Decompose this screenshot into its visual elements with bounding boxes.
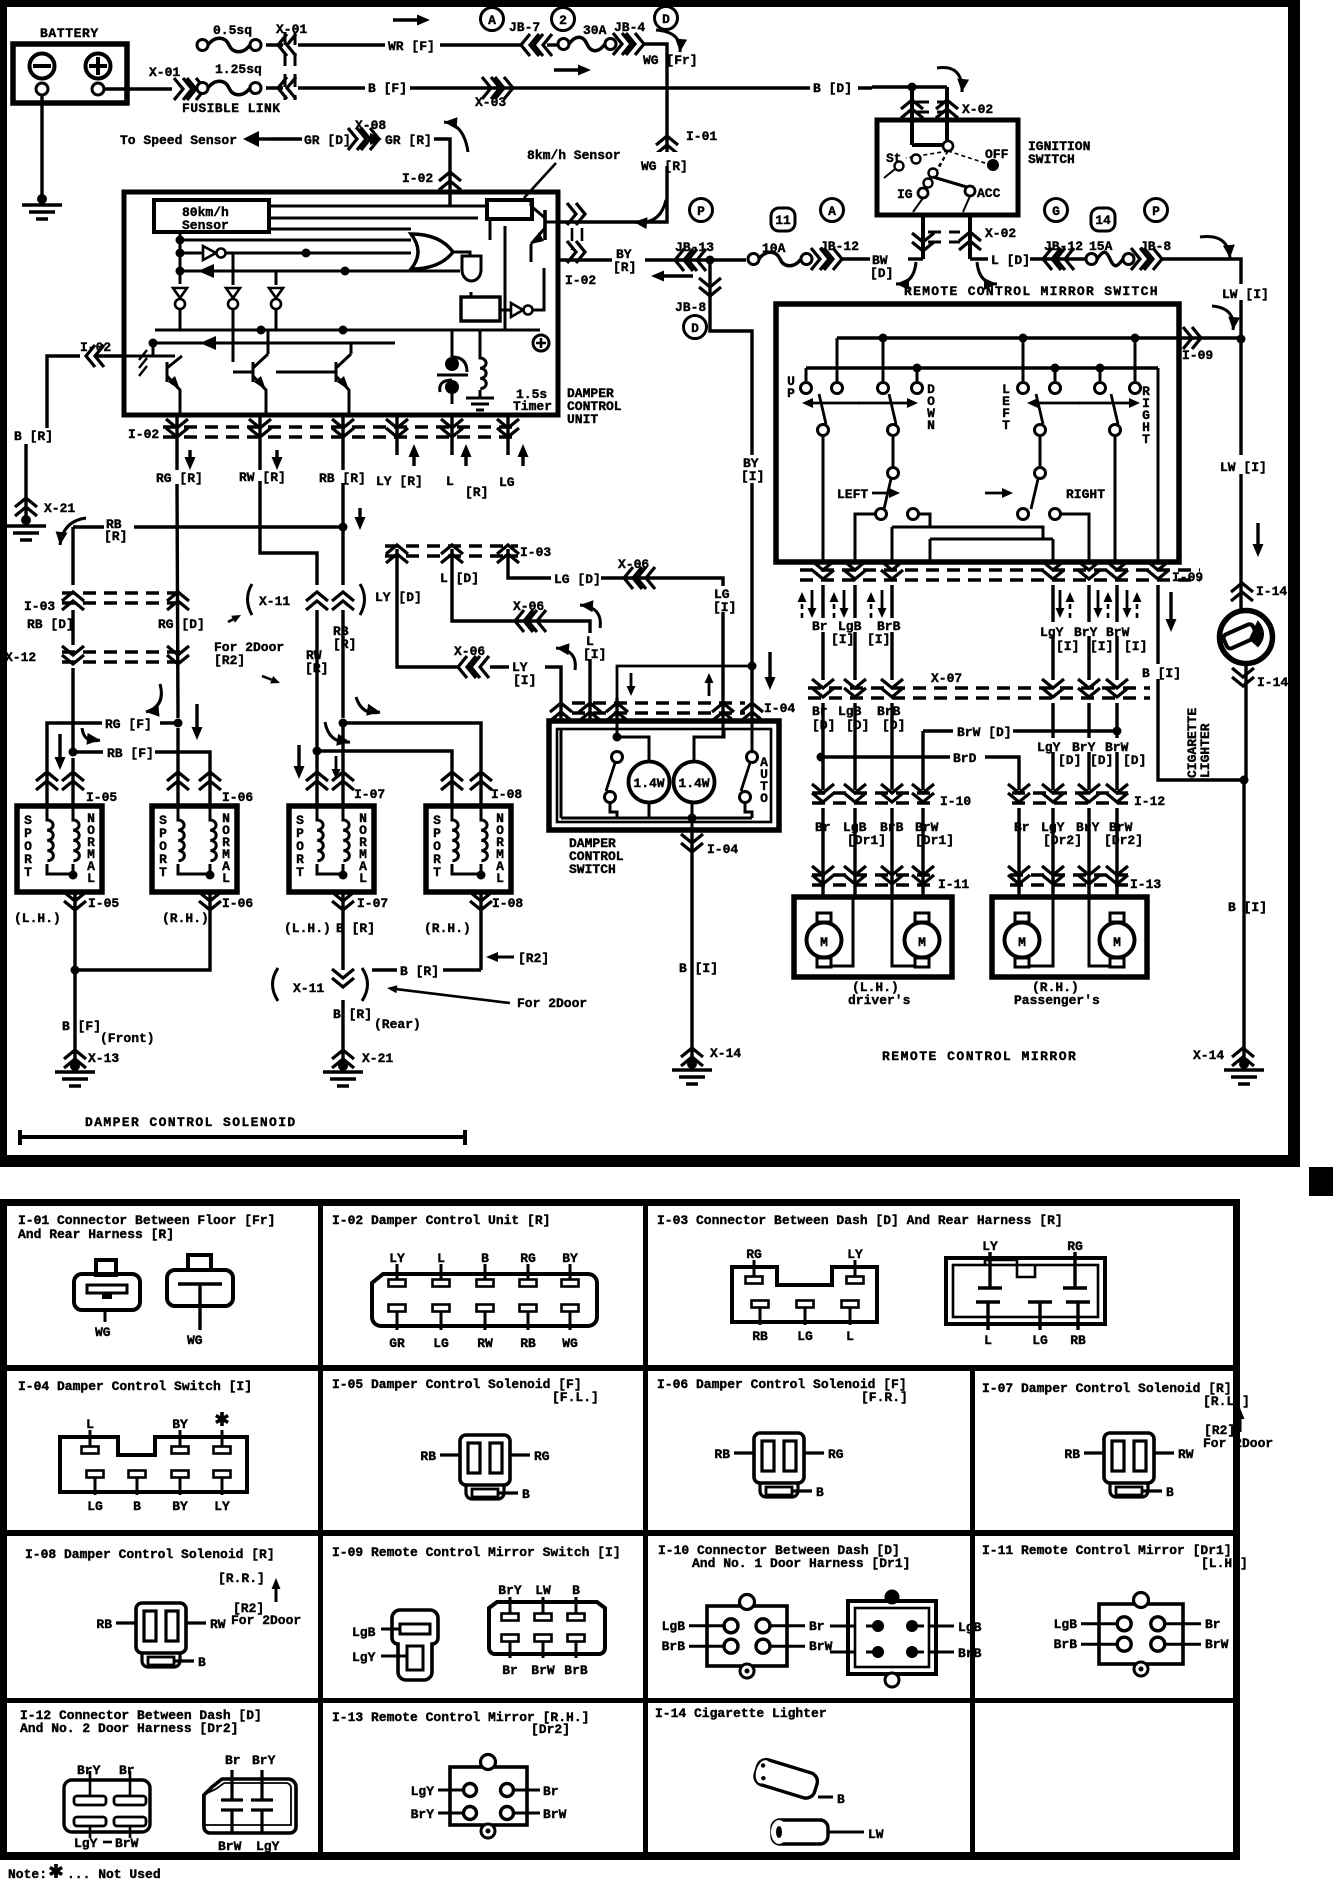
mirror switch top bus [837,334,1241,382]
svg-text:P: P [1152,204,1160,219]
label BY [I] [740,455,764,484]
junction circle P right [1145,199,1168,222]
connector I-09 top right [1182,327,1246,363]
connector chevrons JB-4 [613,33,644,55]
svg-text:LgY: LgY [1040,625,1064,640]
svg-text:GR [R]: GR [R] [385,133,432,148]
svg-text:1.4W: 1.4W [633,776,664,791]
svg-text:B: B [837,1792,845,1807]
connector X-21 left [15,498,75,516]
svg-text:[I]: [I] [741,469,764,484]
dcu output inverter [500,268,544,317]
svg-text:X-12: X-12 [5,650,36,665]
wire L corner [452,549,590,698]
svg-text:GR: GR [389,1336,405,1351]
wire into box1 [47,758,73,806]
damper control switch label [569,836,624,877]
svg-text:RB: RB [420,1449,436,1464]
dcu zener 3 [269,271,283,330]
label RB [R] mid [333,624,356,652]
svg-text:X-14: X-14 [1193,1048,1224,1063]
wire BrB mirror [890,585,893,680]
svg-text:I-08: I-08 [492,896,523,911]
svg-text:P: P [697,204,705,219]
wire RB to box4 [343,723,481,806]
svg-text:1.4W: 1.4W [678,776,709,791]
connector X-13 [64,1050,119,1068]
dcu left bus [176,232,185,284]
labels Dr1 [815,820,954,848]
connector I-14 upper [1231,583,1287,601]
svg-text:L: L [359,871,367,886]
svg-text:I-03: I-03 [520,545,551,560]
remote control mirror switch box [776,304,1179,562]
svg-text:Note:: Note: [8,1867,47,1882]
down arrow B wire [1166,592,1177,632]
svg-text:[F.R.]: [F.R.] [861,1390,908,1405]
wire BW [D] [840,253,923,281]
down arrow at BY [765,652,776,690]
svg-text:LG: LG [1032,1333,1048,1348]
connector X-11 lower [273,968,368,1001]
arrow BY left [651,271,693,282]
curved arrow left col [146,684,161,717]
svg-text:B: B [1166,1485,1174,1500]
connector X-11 upper [248,584,365,615]
fusible link label [182,101,280,116]
svg-text:D: D [691,321,699,336]
wire fuse to X-01 top [266,45,283,88]
svg-text:LY: LY [389,1251,405,1266]
svg-text:RW: RW [477,1336,493,1351]
svg-text:B: B [133,1499,141,1514]
svg-text:X-02: X-02 [985,226,1016,241]
I-06 connector drawing [714,1433,843,1500]
label LEFT arrow [837,487,900,502]
svg-text:T: T [24,865,32,880]
wire through I-02 pin 4 [386,415,408,455]
svg-text:M: M [1113,935,1121,950]
svg-text:WG: WG [95,1325,111,1340]
connector X-06 middle [513,599,546,632]
curved arrow L down [977,262,997,290]
connector X-14 left [681,1046,741,1066]
I-04 connector drawing [60,1412,247,1514]
svg-text:2: 2 [559,13,567,28]
svg-text:LIGHTER: LIGHTER [1198,723,1213,778]
svg-text:L [D]: L [D] [440,571,479,586]
wire box2 out [71,892,211,975]
svg-text:O: O [760,791,768,806]
svg-text:[Dr2]: [Dr2] [531,1722,570,1737]
label JB-13 [675,240,714,255]
up-down arrow line left [802,398,918,408]
ignition label ACC [977,186,1001,201]
svg-text:[D]: [D] [1090,753,1113,768]
svg-text:... Not Used: ... Not Used [67,1867,161,1882]
flow arrows Br [798,590,817,618]
junction circle 14 [1091,208,1115,231]
motor M1 left box [807,913,842,967]
svg-text:BrB: BrB [958,1646,982,1661]
svg-text:[Dr1]: [Dr1] [847,833,886,848]
mirror B wire inside [1157,368,1160,562]
svg-text:BrY: BrY [252,1753,276,1768]
svg-text:[F.L.]: [F.L.] [552,1390,599,1405]
svg-text:RB: RB [714,1447,730,1462]
svg-text:T: T [159,865,167,880]
svg-text:LgB: LgB [662,1619,686,1634]
I-09 connector B pins [498,1583,588,1678]
svg-text:And Rear Harness [R]: And Rear Harness [R] [18,1227,174,1242]
connector I-05 chevrons [36,772,117,805]
connector X-08 [348,118,386,150]
mirror lever right [1110,394,1121,436]
wire LgY mirror [1051,585,1054,680]
battery [13,44,127,103]
I-02 connector drawing [372,1251,597,1351]
dcu transistor 2 [233,330,268,415]
I-01 connector A [74,1260,140,1322]
wire WG into damper control unit [560,219,667,222]
svg-text:L [D]: L [D] [991,253,1030,268]
svg-text:L: L [222,871,230,886]
svg-text:SWITCH: SWITCH [1028,152,1075,167]
curved arrow LW corner [1200,236,1235,258]
header I-04 [18,1379,252,1394]
svg-text:I-09: I-09 [1182,348,1213,363]
connector I-03 left [24,592,189,614]
svg-text:LgY: LgY [352,1650,376,1665]
ignition label St [886,151,902,166]
wire BrY mirror [1087,585,1090,680]
label To Speed Sensor [120,133,237,148]
svg-text:I-09 Remote Control Mirror Swi: I-09 Remote Control Mirror Switch [I] [332,1545,621,1560]
svg-text:[R]: [R] [613,260,636,275]
wire LgB mirror [853,585,856,680]
connector X-02 lower [912,226,1016,251]
label LH drivers [848,980,911,1008]
wire BrW [D] [923,725,1122,790]
wire RB left branch [71,527,74,747]
bracket line [20,1130,465,1145]
svg-text:BrW: BrW [1106,625,1130,640]
connector I-08 chevrons [441,772,522,802]
I-11 connector [1054,1593,1229,1677]
svg-text:REMOTE CONTROL MIRROR SWITCH: REMOTE CONTROL MIRROR SWITCH [904,284,1159,299]
svg-text:I-11 Remote Control Mirror [Dr: I-11 Remote Control Mirror [Dr1] [982,1543,1232,1558]
dcs wire LG in [722,721,725,737]
svg-text:I-03 Connector Between Dash [D: I-03 Connector Between Dash [D] And Rear… [657,1213,1063,1228]
connector X-07 row [808,671,1150,698]
fuse 30A [558,23,616,51]
curved arrow RG to RB [82,728,100,745]
mirror wire 1115 down [1114,436,1117,562]
svg-text:LY [R]: LY [R] [376,474,423,489]
header I-09 [332,1545,621,1560]
wire RG [177,455,178,718]
svg-text:IG: IG [897,187,913,202]
svg-text:Passenger's: Passenger's [1014,993,1100,1008]
svg-text:To Speed Sensor: To Speed Sensor [120,133,237,148]
svg-text:BrY: BrY [1074,625,1098,640]
label RB [R] [319,471,366,530]
label B [I] far right [1228,900,1267,915]
I-07 annotations [1203,1408,1273,1451]
down arrow solenoid 4 [332,756,341,779]
dcu plus circle [533,335,549,351]
motor M2 right box [1100,913,1135,967]
wire box1 out [73,892,76,970]
wire RG [F] [47,717,183,763]
dcu transistor 1 [139,350,182,415]
battery label [40,26,99,41]
wire RB [F] [69,746,211,763]
svg-text:(Rear): (Rear) [374,1017,421,1032]
label LY [D] [375,590,422,605]
dcs wiring bulb2 top [694,729,724,761]
fuse 15A [1086,239,1134,266]
label L [R] [446,444,488,500]
svg-text:LgB: LgB [352,1625,376,1640]
note not used [8,1864,161,1882]
svg-text:L: L [984,1333,992,1348]
wire L [D] [970,253,1086,268]
svg-text:I-12: I-12 [1134,794,1165,809]
svg-text:[D]: [D] [812,718,835,733]
junction circle A [481,8,504,31]
dcu timer circuit [437,330,494,410]
ground X-21 lower [323,1061,363,1086]
I-08 annotations [231,1578,301,1628]
down arrow solenoid 2 [192,704,203,740]
svg-text:[I]: [I] [831,632,854,647]
svg-text:Timer: Timer [513,399,552,414]
dcs wiring to bulb1 [617,737,649,761]
I-03 connector B drawing [946,1239,1105,1348]
svg-text:Br: Br [119,1763,135,1778]
wire box4 out [479,892,482,970]
label RIGHT vertical [1142,384,1150,447]
I-03 connector A drawing [732,1247,877,1344]
header I-12 [20,1708,262,1736]
svg-text:RG [F]: RG [F] [105,717,152,732]
svg-text:I-04 Damper Control Switch [I]: I-04 Damper Control Switch [I] [18,1379,252,1394]
svg-text:B: B [572,1583,580,1598]
connector I-12 row [1008,784,1165,809]
label L [D] [440,571,479,586]
svg-text:OFF: OFF [985,147,1009,162]
I-08 connector drawing [96,1603,225,1670]
svg-text:A: A [488,13,496,28]
dcs bulb 2 [674,762,715,803]
connector X-14 right [1193,1048,1254,1066]
flow arrows BrW [1123,590,1142,618]
svg-text:T: T [1142,432,1150,447]
svg-text:LgY: LgY [74,1836,98,1851]
svg-text:RB [D]: RB [D] [27,617,74,632]
label LY [R] [376,444,423,489]
dcu inverter line [180,246,411,260]
ground X-14 left [672,1059,712,1084]
curved arrow at ignition top [937,68,969,93]
svg-text:[Dr2]: [Dr2] [1043,833,1082,848]
dcu misc right wires [490,219,505,330]
label DOWN vertical [927,382,935,433]
wire JB-8 branch down [710,260,752,664]
arrow to speed sensor [243,131,268,147]
svg-text:And No. 1 Door Harness [Dr1]: And No. 1 Door Harness [Dr1] [692,1556,910,1571]
svg-text:For 2Door: For 2Door [231,1613,301,1628]
svg-text:BrD: BrD [953,751,977,766]
connector chevrons JB-12 left [811,248,842,270]
header I-13 [332,1710,589,1737]
wire I-02 left exit [95,343,153,356]
svg-text:T: T [433,865,441,880]
fuse 10A [748,241,812,266]
label B [I] right wire [1140,664,1181,681]
down arrow in I-04 zone [627,673,636,696]
I-07 connector drawing [1064,1433,1193,1500]
labels RB RG [D] [27,617,205,632]
svg-text:X-01: X-01 [276,22,307,37]
curved arrow X-06 mid [580,600,600,628]
damper control solenoid box 1 (L.H. front) [17,806,102,892]
curved arrow WG into unit [634,200,666,229]
header I-14 [655,1706,827,1721]
connector I-07 below [284,892,388,936]
svg-text:JB-8: JB-8 [675,300,706,315]
svg-text:I-08 Damper Control Solenoid [: I-08 Damper Control Solenoid [R] [25,1547,275,1562]
svg-text:[R]: [R] [333,637,356,652]
label RH passengers [1014,980,1100,1008]
flow arrows LgY [1056,590,1075,618]
dcu diode line 2 [149,336,396,350]
wire LG [D] [508,549,723,698]
connector I-08 below [424,892,523,936]
label LG [499,444,529,490]
wire lighter to ground [1240,664,1249,1062]
header I-08 [25,1547,275,1586]
dcu zener 2 [226,253,240,362]
curved arrow GR corner [444,117,468,152]
svg-text:B [F]: B [F] [62,1019,101,1034]
I-10 connector B [830,1590,982,1688]
svg-text:[R]: [R] [305,661,328,676]
connector chevrons JB-8 right [1131,239,1171,270]
remote control mirror title [882,1049,1077,1064]
svg-text:Br: Br [1014,820,1030,835]
svg-text:I-07: I-07 [357,896,388,911]
svg-text:[D]: [D] [882,718,905,733]
svg-text:I-01 Connector Between Floor [: I-01 Connector Between Floor [Fr] [18,1213,275,1228]
svg-text:L: L [87,871,95,886]
connector I-09 bottom row [800,561,1203,585]
svg-text:LEFT: LEFT [837,487,868,502]
ignition switch box [877,120,1018,215]
label L [I] [583,633,606,662]
svg-text:B: B [522,1487,530,1502]
label RW [R] mid [305,648,328,676]
svg-text:[I]: [I] [713,600,736,615]
svg-text:BrB: BrB [564,1663,588,1678]
svg-text:T: T [1002,418,1010,433]
connector chevrons JB-12 right [1043,239,1083,270]
dcs left wire [560,729,563,818]
junction circle 11 [771,208,795,231]
wire B [D] to ignition switch [872,87,947,148]
connector X-01 battery side [149,65,205,100]
wire BY [R] from damper unit [558,247,746,275]
mirror crossover wiring [892,514,1053,562]
svg-text:I-04: I-04 [707,842,738,857]
header I-11 [982,1543,1248,1571]
svg-text:P: P [787,386,795,401]
svg-text:RB: RB [752,1329,768,1344]
svg-text:B: B [481,1251,489,1266]
dcu and gate [453,252,481,297]
labels mirror wires D left [812,704,905,733]
svg-text:WG [Fr]: WG [Fr] [643,53,698,68]
svg-text:I-02: I-02 [402,171,433,186]
wire LW to corner [1160,259,1241,339]
wire through I-02 pin 1 [166,415,188,455]
wire through I-02 pin 5 [441,415,463,455]
dcu right transistor [531,200,560,262]
ground battery [22,194,62,219]
svg-text:X-06: X-06 [513,599,544,614]
svg-text:RG [D]: RG [D] [158,617,205,632]
svg-text:DAMPER CONTROL SOLENOID: DAMPER CONTROL SOLENOID [85,1115,297,1130]
connector X-03 [475,77,513,110]
svg-text:BATTERY: BATTERY [40,26,99,41]
svg-text:[R.R.]: [R.R.] [218,1571,265,1586]
wire B [F] [298,81,872,96]
svg-text:RG: RG [534,1449,550,1464]
svg-text:15A: 15A [1089,239,1113,254]
svg-text:(L.H.): (L.H.) [14,911,61,926]
connector I-10 row [812,784,971,809]
junction dot B [D] [908,83,917,92]
wire through I-02 pin 6 [497,415,519,455]
svg-text:[L.H.]: [L.H.] [1201,1556,1248,1571]
svg-text:B [I]: B [I] [1228,900,1267,915]
svg-text:X-13: X-13 [88,1051,119,1066]
connector I-02 bottom row [128,427,520,442]
mirror lever up [818,394,829,436]
I-01 connector B label [187,1333,203,1348]
label RW [R] [239,450,286,485]
mirror switch bus 2 [806,364,1158,382]
wire B [F] down [62,970,155,1064]
svg-text:LG: LG [797,1329,813,1344]
svg-text:Br: Br [809,1619,825,1634]
svg-text:(R.H.): (R.H.) [424,921,471,936]
svg-text:I-08: I-08 [491,787,522,802]
svg-text:I-04: I-04 [764,701,795,716]
svg-text:LgB: LgB [838,704,862,719]
svg-text:JB-4: JB-4 [614,20,645,35]
svg-text:[I]: [I] [1056,639,1079,654]
wire B [R] cross [372,964,481,979]
svg-text:I-07 Damper Control Solenoid [: I-07 Damper Control Solenoid [R] [982,1381,1232,1396]
wire WR [F] [298,39,560,54]
svg-text:I-06: I-06 [222,790,253,805]
svg-text:LY: LY [214,1499,230,1514]
junction circle P left [690,199,713,222]
svg-text:BrW: BrW [531,1663,555,1678]
junction label JB-4 [614,20,645,35]
